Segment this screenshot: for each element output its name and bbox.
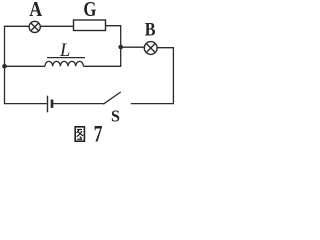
- label S: [111, 106, 120, 125]
- wire: left junction to inductor: [5, 65, 46, 67]
- wire: bottom-left to battery: [4, 103, 47, 105]
- svg-text:B: B: [145, 18, 156, 40]
- wire: junction to lamp B: [121, 46, 145, 48]
- wire: lamp B to right vertical rail: [157, 48, 174, 104]
- wire: battery to switch: [53, 103, 103, 105]
- svg-text:A: A: [29, 0, 42, 21]
- wire: inductor to right node column: [83, 65, 121, 67]
- battery: short thick plate: [51, 100, 54, 108]
- label G: [83, 0, 96, 22]
- label B: [145, 18, 156, 40]
- node: junction to lamp B branch: [118, 45, 123, 50]
- node: left junction of inductor branch: [2, 64, 7, 69]
- wire: resistor G to top-right corner, down to inductor net: [106, 26, 121, 67]
- lamp B: [144, 42, 157, 55]
- inductor core bar / label underline: [47, 57, 85, 59]
- battery: long plate: [47, 96, 49, 113]
- svg-text:S: S: [111, 106, 120, 125]
- svg-text:7: 7: [94, 121, 103, 147]
- resistor G (box): [74, 20, 106, 31]
- label A: [29, 0, 42, 21]
- inductor L (coil): [45, 61, 83, 66]
- caption: figure number 7: [94, 121, 103, 147]
- wire: top-left to lamp A: [4, 25, 29, 27]
- caption: character 图 (drawn strokes): [75, 127, 84, 141]
- lamp A: [29, 21, 40, 32]
- svg-text:L: L: [59, 41, 70, 61]
- wire: left vertical rail: [4, 26, 6, 103]
- wire: switch to bottom-right corner: [131, 103, 174, 105]
- wire: lamp A to resistor G: [40, 25, 73, 27]
- switch S blade: [103, 92, 121, 104]
- svg-text:G: G: [83, 0, 96, 22]
